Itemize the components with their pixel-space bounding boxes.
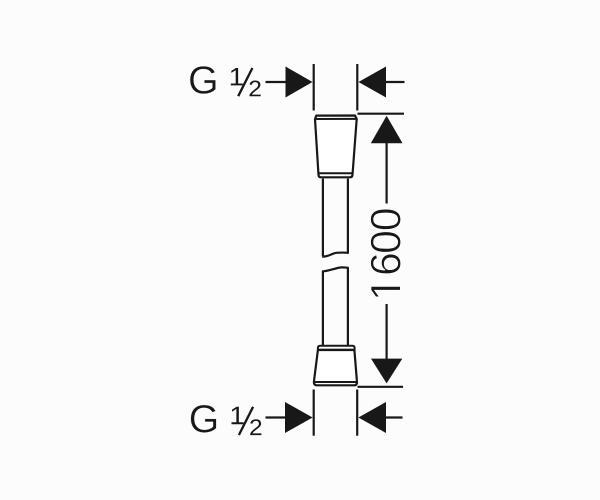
dimension arrow top-right xyxy=(359,67,387,98)
extension line 1600 bottom xyxy=(358,386,404,388)
extension line top-right xyxy=(356,64,358,111)
wire tail line bottom-right xyxy=(385,416,403,418)
label 1/2 bottom xyxy=(232,407,262,435)
dimension arrow top-left xyxy=(286,67,313,98)
label 1600 xyxy=(371,209,401,297)
wire 1600 lower xyxy=(386,304,388,360)
wire 1600 upper xyxy=(386,142,388,204)
dimension arrow bottom-left xyxy=(285,402,313,433)
wire lead line bottom-left xyxy=(266,416,288,418)
hose tube upper segment xyxy=(322,179,349,257)
extension line 1600 top xyxy=(358,113,405,115)
dimension arrow bottom-right xyxy=(358,402,386,433)
label G top xyxy=(190,66,216,94)
hose nut top xyxy=(315,116,357,178)
wire tail line top-right xyxy=(385,81,405,83)
label 1/2 top xyxy=(231,68,261,96)
hose nut bottom cone xyxy=(314,350,357,385)
wire lead line top-left xyxy=(266,81,288,83)
hose tube lower segment xyxy=(322,267,349,346)
hose nut bottom collar xyxy=(318,346,355,350)
label G bottom xyxy=(191,405,217,433)
extension line bottom-right xyxy=(356,390,358,436)
extension line bottom-left xyxy=(313,390,315,436)
dimension arrow 1600 up xyxy=(371,116,403,143)
extension line top-left xyxy=(313,64,315,111)
dimension arrow 1600 down xyxy=(371,359,402,384)
